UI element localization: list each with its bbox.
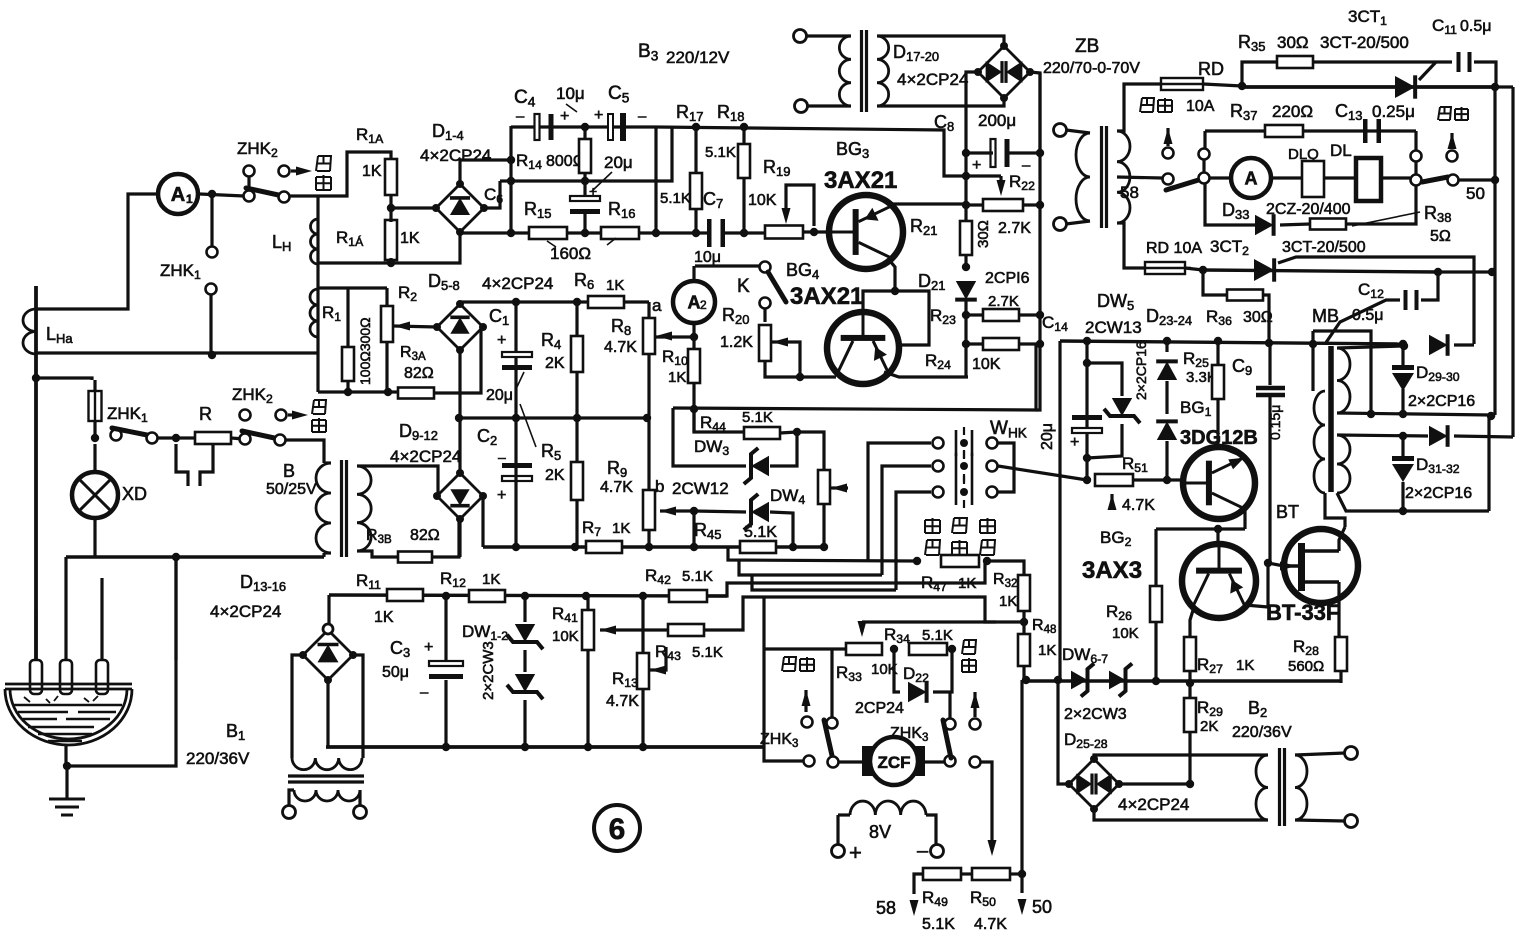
wire [1487, 416, 1490, 511]
wire [764, 755, 803, 761]
svg-text:1K: 1K [958, 575, 976, 592]
svg-text:K: K [737, 276, 750, 297]
svg-text:58: 58 [876, 898, 896, 918]
wire [1313, 60, 1452, 63]
junction [1018, 870, 1026, 878]
resistor R29 [1184, 698, 1196, 732]
thyristor 3CT1 [1395, 76, 1415, 98]
contact ZHK3R a [945, 756, 956, 767]
arrow R8 wiper [656, 332, 672, 341]
junction [740, 229, 748, 237]
wire [1325, 300, 1400, 344]
contact sel left top [1199, 149, 1210, 160]
contact ZHK1 a [207, 247, 218, 258]
wire R1A bracket [318, 152, 391, 196]
junction [793, 428, 801, 436]
svg-text:20μ: 20μ [486, 387, 513, 404]
potentiometer R2 [381, 306, 393, 342]
mid bus y418 [458, 416, 649, 419]
junction [1163, 476, 1171, 484]
junction [820, 543, 828, 551]
wire [523, 700, 526, 747]
svg-text:4.7K: 4.7K [604, 339, 637, 356]
wire DW column [523, 596, 526, 622]
wire [1205, 184, 1255, 225]
wire LH line [316, 196, 319, 392]
resistor R6 [588, 296, 624, 308]
wire MB bracket [1313, 331, 1371, 414]
svg-text:50: 50 [1466, 184, 1485, 203]
junction [639, 592, 647, 600]
wire electrode 3 [100, 578, 103, 660]
wire DW3 loop left [673, 408, 746, 466]
wire [694, 209, 697, 233]
winding 8V [850, 801, 926, 815]
wire [1280, 224, 1310, 225]
svg-text:ZB: ZB [1075, 36, 1099, 57]
bridge rectifier D5-8 [437, 304, 483, 350]
resistor R1A [385, 159, 397, 195]
potentiometer R9 [643, 490, 655, 530]
wire [1242, 62, 1278, 86]
capacitor C6 [570, 196, 600, 201]
svg-text:4×2CP24: 4×2CP24 [482, 274, 553, 293]
resistor R1 100ohm [342, 347, 354, 381]
svg-text:8V: 8V [869, 822, 891, 842]
svg-text:B: B [283, 461, 295, 481]
wire [1266, 563, 1269, 607]
junction [1399, 432, 1407, 440]
svg-text:–: – [1022, 157, 1031, 174]
transistor BG4 [827, 312, 899, 384]
junction [507, 156, 515, 164]
svg-text:–: – [498, 449, 506, 465]
wire [1133, 478, 1181, 481]
junction [643, 414, 651, 422]
wire [831, 486, 848, 489]
svg-text:A: A [688, 292, 701, 312]
wire BG1 emitter [1243, 509, 1246, 529]
svg-text:3CT-20/500: 3CT-20/500 [1282, 239, 1366, 256]
wire R2 wiper [394, 326, 437, 327]
winding B2 primary [1256, 755, 1268, 820]
resistor R42 [669, 590, 707, 602]
wire [1030, 72, 1040, 155]
row y414 [1337, 413, 1491, 415]
contact ZHK3R spare top [970, 719, 981, 730]
resistor R3A [398, 388, 434, 399]
stair R42 [707, 561, 985, 596]
wire B sec top to D9-12 [357, 466, 438, 496]
junction [796, 373, 804, 381]
svg-text:1K: 1K [482, 571, 500, 588]
junction [1238, 82, 1246, 90]
thyristor 3CT2 [1254, 259, 1274, 281]
svg-text:10A: 10A [1186, 98, 1215, 115]
wire [1019, 342, 1040, 345]
resistor R23 [983, 309, 1019, 321]
transistor BG3 [829, 195, 903, 269]
junction [1367, 410, 1375, 418]
junction [810, 228, 818, 236]
wire [1401, 346, 1404, 366]
terminal B1 b [354, 806, 367, 819]
label down (xiajiang) [980, 518, 995, 533]
zener DW7 [1109, 671, 1126, 690]
wire [586, 650, 589, 747]
resistor R24 [983, 338, 1019, 350]
stair row 3 [752, 575, 896, 590]
contact ZHK1 b [206, 284, 217, 295]
zener DW2 [515, 674, 535, 692]
svg-text:3AX3: 3AX3 [1082, 557, 1142, 584]
capacitor C8 [991, 139, 996, 167]
wire [966, 151, 993, 154]
D22 loop [894, 649, 900, 692]
junction [948, 645, 956, 653]
winding ZB secondary [1117, 131, 1130, 223]
svg-text:4×2CP24: 4×2CP24 [897, 70, 968, 89]
svg-text:10K: 10K [552, 628, 579, 645]
junction [571, 543, 579, 551]
wire [575, 372, 578, 418]
wire R to ZHK2b [231, 438, 244, 439]
terminal B1 a [283, 806, 296, 819]
junction [1083, 454, 1091, 462]
right rail A [1493, 87, 1496, 415]
connector WHK left 2 [933, 461, 944, 472]
ground [49, 799, 85, 815]
svg-text:10μ: 10μ [694, 249, 721, 266]
terminal B3 b [795, 100, 808, 113]
wire [1495, 85, 1513, 88]
resistor R26 [1150, 586, 1162, 622]
wire [807, 104, 851, 107]
wire [742, 127, 745, 144]
svg-text:+: + [972, 157, 981, 174]
wire BG3 collector [890, 261, 895, 291]
wire [1094, 809, 1268, 820]
wire bottom row R1 block [318, 390, 398, 393]
bus y596 [329, 595, 727, 596]
wire [692, 511, 695, 547]
potentiometer R19 [765, 226, 803, 239]
wire [1268, 397, 1271, 563]
resistor R1A' [385, 220, 397, 260]
svg-text:50μ: 50μ [382, 664, 409, 681]
junction [1399, 410, 1407, 418]
svg-text:20μ: 20μ [604, 153, 633, 172]
terminal 8V+ [832, 845, 845, 858]
wire [822, 504, 825, 547]
3CT1 gate [1419, 62, 1436, 80]
winding B1 secondary [294, 790, 360, 801]
svg-text:5.1K: 5.1K [922, 627, 953, 644]
wire [458, 418, 461, 473]
wire main left vertical [34, 286, 38, 660]
junction [890, 645, 898, 653]
junction [1488, 268, 1496, 276]
wire [1421, 272, 1438, 300]
wire [523, 650, 526, 672]
wire [458, 519, 461, 557]
wire [1023, 203, 1040, 206]
junction [581, 177, 589, 185]
capacitor C11 [1457, 52, 1461, 72]
wire BG2 collector [1245, 605, 1268, 607]
svg-text:1K: 1K [374, 609, 394, 626]
resistor R25 [1212, 365, 1224, 399]
wire [1295, 753, 1345, 755]
wire [1119, 782, 1190, 785]
terminal ZB b [1054, 218, 1067, 231]
wire ZB bottom tap [1117, 223, 1144, 268]
junction [1036, 311, 1044, 319]
wire [583, 181, 586, 197]
wire [1450, 133, 1453, 149]
svg-text:4.7K: 4.7K [606, 693, 639, 710]
svg-text:2CZ-20/400: 2CZ-20/400 [1266, 201, 1351, 218]
diode D22 [908, 682, 927, 702]
wire D1-4 right [484, 181, 500, 208]
junction [962, 149, 970, 157]
wire [1459, 178, 1494, 181]
arrow BT emitter [1280, 562, 1296, 571]
wire [1263, 295, 1269, 343]
svg-text:220/36V: 220/36V [1232, 724, 1292, 741]
svg-text:+: + [424, 639, 433, 656]
junction [1083, 359, 1091, 367]
plating tank [5, 684, 132, 745]
wire [966, 342, 983, 345]
wire [1066, 130, 1090, 133]
bus y747 [326, 745, 764, 749]
wire [914, 874, 923, 894]
capacitor C7 [707, 219, 712, 247]
contact K top [760, 262, 771, 273]
junction [1487, 412, 1495, 420]
bridge rectifier D25-28 [1069, 759, 1119, 809]
switch ZHK2 throw contact [279, 192, 290, 203]
wire C7 to A2/K [695, 264, 762, 267]
R37 row [1205, 129, 1416, 132]
wire A1 left leg [36, 194, 156, 309]
switch ZHK2b blade [242, 431, 279, 439]
fuse RD [1161, 78, 1203, 90]
svg-text:5.1K: 5.1K [922, 916, 955, 933]
junction [1152, 677, 1160, 685]
label up (shang) [925, 518, 940, 533]
resistor R34a [846, 643, 882, 655]
wire [647, 354, 650, 418]
wire BG3 emitter [888, 203, 966, 204]
wire [1010, 872, 1022, 875]
row R34 wiper [862, 620, 1024, 623]
arrow R2 wiper [394, 322, 410, 331]
wire R8 wiper to A2 [656, 335, 694, 338]
svg-text:2CW12: 2CW12 [672, 479, 729, 498]
wire MB primary to BT [1325, 493, 1345, 527]
junction [789, 543, 797, 551]
long rail x1060 [1058, 341, 1061, 680]
svg-text:4×2CP24: 4×2CP24 [210, 602, 281, 621]
junction [1083, 476, 1091, 484]
connector WHK pins 3 [956, 479, 972, 505]
svg-text:160Ω: 160Ω [550, 244, 591, 263]
stair riser 3 [896, 492, 931, 590]
junction [582, 592, 590, 600]
svg-text:RD: RD [1198, 59, 1224, 79]
junction [639, 743, 647, 751]
wire BG4 base [863, 291, 895, 312]
junction [581, 229, 589, 237]
wire [1381, 176, 1410, 179]
wire long vertical x1040 [1036, 73, 1040, 410]
contact ZHK3L a [804, 756, 815, 767]
junction [962, 172, 970, 180]
wire [770, 432, 797, 466]
capacitor C14 [1072, 415, 1102, 420]
svg-text:2CPI6: 2CPI6 [985, 270, 1030, 287]
junction [512, 543, 520, 551]
wire [724, 231, 765, 234]
wire [1165, 441, 1168, 480]
wire [1166, 128, 1169, 146]
wire D1-4 top [460, 160, 511, 184]
wire [981, 762, 992, 840]
junction [1083, 337, 1091, 345]
wire [583, 173, 586, 181]
svg-text:+: + [594, 107, 603, 124]
arrow to 58 [910, 900, 919, 916]
connector WHK left 3 [933, 487, 944, 498]
winding LH [311, 219, 319, 264]
wire [765, 361, 836, 377]
wire [1019, 313, 1040, 316]
wire BG4 base bracket [895, 291, 929, 345]
svg-text:5.1K: 5.1K [692, 644, 723, 661]
resistor R51 [1095, 474, 1133, 486]
wire [1339, 671, 1342, 683]
bridge rectifier D9-12 [437, 473, 483, 519]
potentiometer R20 [759, 325, 771, 361]
diode D21 [956, 281, 976, 300]
winding B3 secondary [877, 36, 889, 106]
stair row 2 [739, 560, 882, 575]
svg-text:0.15μ: 0.15μ [1267, 405, 1283, 440]
diode D29 [1392, 365, 1414, 370]
svg-text:1.2K: 1.2K [720, 334, 753, 351]
node A1 output [208, 190, 216, 198]
wire D1-4 bottom [391, 232, 460, 263]
resistor R37 [1265, 125, 1303, 137]
svg-text:–: – [638, 108, 647, 125]
svg-text:2: 2 [700, 298, 707, 312]
junction [891, 287, 899, 295]
contact sel right [1411, 175, 1422, 186]
bridge rectifier D1-4 [436, 184, 484, 232]
svg-text:5.1K: 5.1K [705, 144, 736, 161]
wire [346, 288, 349, 347]
terminal 8V- [931, 845, 944, 858]
contact K bottom [760, 298, 771, 309]
wire [807, 34, 851, 37]
diode D32 [1392, 456, 1414, 461]
lamp XD [72, 472, 118, 518]
svg-text:58: 58 [1120, 183, 1139, 202]
svg-text:A: A [1245, 168, 1258, 188]
svg-text:220/36V: 220/36V [186, 749, 250, 768]
page number 6 [594, 805, 640, 851]
wire [933, 649, 952, 692]
node R1A mid [387, 204, 395, 212]
svg-text:1K: 1K [362, 163, 382, 180]
junction [584, 743, 592, 751]
svg-text:+: + [1070, 434, 1079, 451]
capacitor C2 [502, 463, 532, 468]
wire [353, 655, 363, 758]
wire BG2 emitter [1190, 607, 1194, 637]
resistor R21 [960, 221, 972, 255]
svg-text:5.1K: 5.1K [660, 190, 691, 207]
wire [961, 872, 972, 875]
svg-text:10K: 10K [748, 192, 777, 209]
svg-text:–: – [917, 840, 929, 862]
junction [521, 592, 529, 600]
node R10 bottom [690, 405, 698, 413]
wire [647, 530, 650, 548]
wire [575, 418, 578, 462]
wire [1401, 389, 1404, 414]
wire [600, 628, 668, 631]
svg-text:1K: 1K [606, 277, 624, 294]
wire [694, 127, 697, 173]
contact ZHK2b pole [240, 434, 251, 445]
potentiometer W [818, 470, 830, 504]
svg-text:+: + [849, 840, 862, 865]
label spare [782, 657, 796, 671]
junction [645, 543, 653, 551]
bus y127 [656, 127, 1001, 176]
terminal B2 a [1345, 747, 1358, 760]
contact sel right top [1411, 151, 1422, 162]
junction [1434, 268, 1442, 276]
svg-text:RD 10A: RD 10A [1146, 240, 1202, 257]
junction [983, 557, 991, 565]
motor ZCF [862, 746, 873, 776]
contact ZHK1 switch a [111, 430, 122, 441]
wire C4C5 left drop [509, 126, 512, 233]
connector WHK right 2 [987, 461, 998, 472]
wire [385, 342, 388, 392]
diode D23 [1157, 361, 1177, 380]
wire [437, 494, 438, 497]
wire [1216, 399, 1219, 446]
diode D31 [1429, 426, 1448, 446]
wire [583, 127, 586, 139]
svg-text:82Ω: 82Ω [404, 365, 434, 382]
svg-text:1K: 1K [612, 520, 630, 537]
contact ZHK2b upper [240, 410, 251, 421]
connector WHK left 1 [933, 438, 944, 449]
winding MB primary [1314, 391, 1325, 493]
wire [964, 300, 967, 377]
wire [385, 288, 388, 306]
wire [966, 203, 983, 206]
wire R22 wiper [999, 176, 1002, 188]
wire DW4 row [694, 511, 746, 512]
wire ZHK2 to LH node [290, 194, 318, 197]
